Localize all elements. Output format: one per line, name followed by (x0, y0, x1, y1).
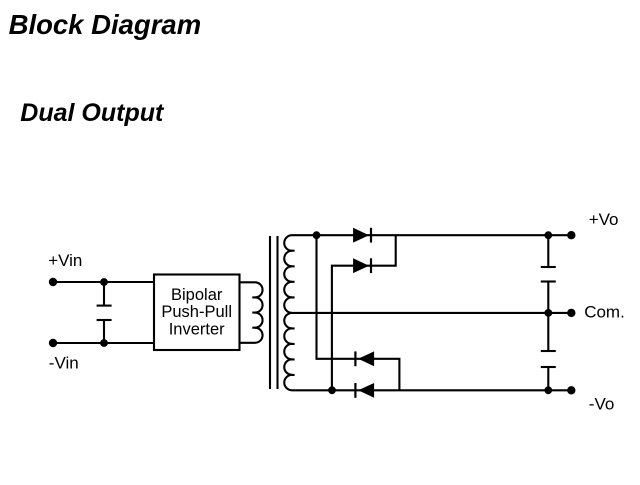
capacitor C1 top plate (97, 305, 112, 307)
junction dot node A (secondary top) (313, 231, 321, 239)
wire: +Vo top rail (317, 234, 572, 236)
terminal dot +Vin (49, 278, 57, 286)
capacitor C3 top plate (541, 350, 556, 352)
svg-text:Dual Output: Dual Output (20, 99, 165, 127)
capacitor C2 top lead (547, 235, 549, 267)
capacitor C3 top lead (547, 313, 549, 351)
svg-text:-Vo: -Vo (589, 395, 615, 414)
capacitor C1 top lead (103, 282, 105, 306)
terminal dot -Vo (567, 386, 575, 394)
capacitor C2 bottom plate (541, 280, 556, 282)
terminal dot -Vin (49, 339, 57, 347)
diode D3 (354, 351, 374, 366)
terminal dot +Vo (567, 231, 575, 239)
wire: diode D3 branch (row 3) (317, 235, 400, 390)
terminal dot Com (567, 309, 575, 317)
junction dot Com rail (544, 309, 552, 317)
junction dot C2 at +Vo rail (544, 231, 552, 239)
transformer T1 primary winding (240, 282, 263, 342)
primary winding cusp ticks (252, 297, 257, 327)
transformer core line 2 (276, 236, 278, 389)
wire: +Vin rail to inverter (53, 281, 154, 283)
diode D1 (353, 228, 372, 243)
wire: -Vo bottom rail (332, 389, 571, 391)
capacitor C3 bottom lead (547, 367, 549, 390)
junction dot C3 at -Vo rail (544, 386, 552, 394)
wire: center tap to Com rail (288, 312, 571, 314)
wire: diode D2 branch (row 2) (332, 235, 396, 390)
capacitor C3 bottom plate (541, 366, 556, 368)
diode D4 (354, 383, 374, 398)
wire: -Vin rail to inverter (53, 342, 154, 344)
transformer T1 secondary winding (284, 235, 332, 390)
secondary winding cusp ticks (290, 251, 295, 375)
svg-text:Com.: Com. (584, 302, 625, 321)
inverter block U1 text (161, 286, 232, 339)
diode D2 (353, 258, 372, 273)
junction dot node B (secondary bottom) (328, 386, 336, 394)
svg-text:Inverter: Inverter (169, 321, 225, 339)
capacitor C2 bottom lead (547, 282, 549, 313)
capacitor C1 bottom lead (103, 320, 105, 343)
transformer core line 1 (269, 236, 271, 389)
capacitor C2 top plate (541, 266, 556, 268)
svg-text:Push-Pull: Push-Pull (161, 303, 232, 321)
svg-text:+Vo: +Vo (589, 210, 619, 229)
inverter block U1 (154, 275, 240, 351)
svg-text:+Vin: +Vin (48, 251, 82, 270)
svg-text:Block Diagram: Block Diagram (9, 9, 202, 40)
capacitor C1 bottom plate (97, 319, 112, 321)
junction dot C1 top (100, 278, 108, 286)
svg-text:Bipolar: Bipolar (171, 286, 223, 304)
svg-text:-Vin: -Vin (49, 354, 79, 373)
junction dot C1 bottom (100, 339, 108, 347)
